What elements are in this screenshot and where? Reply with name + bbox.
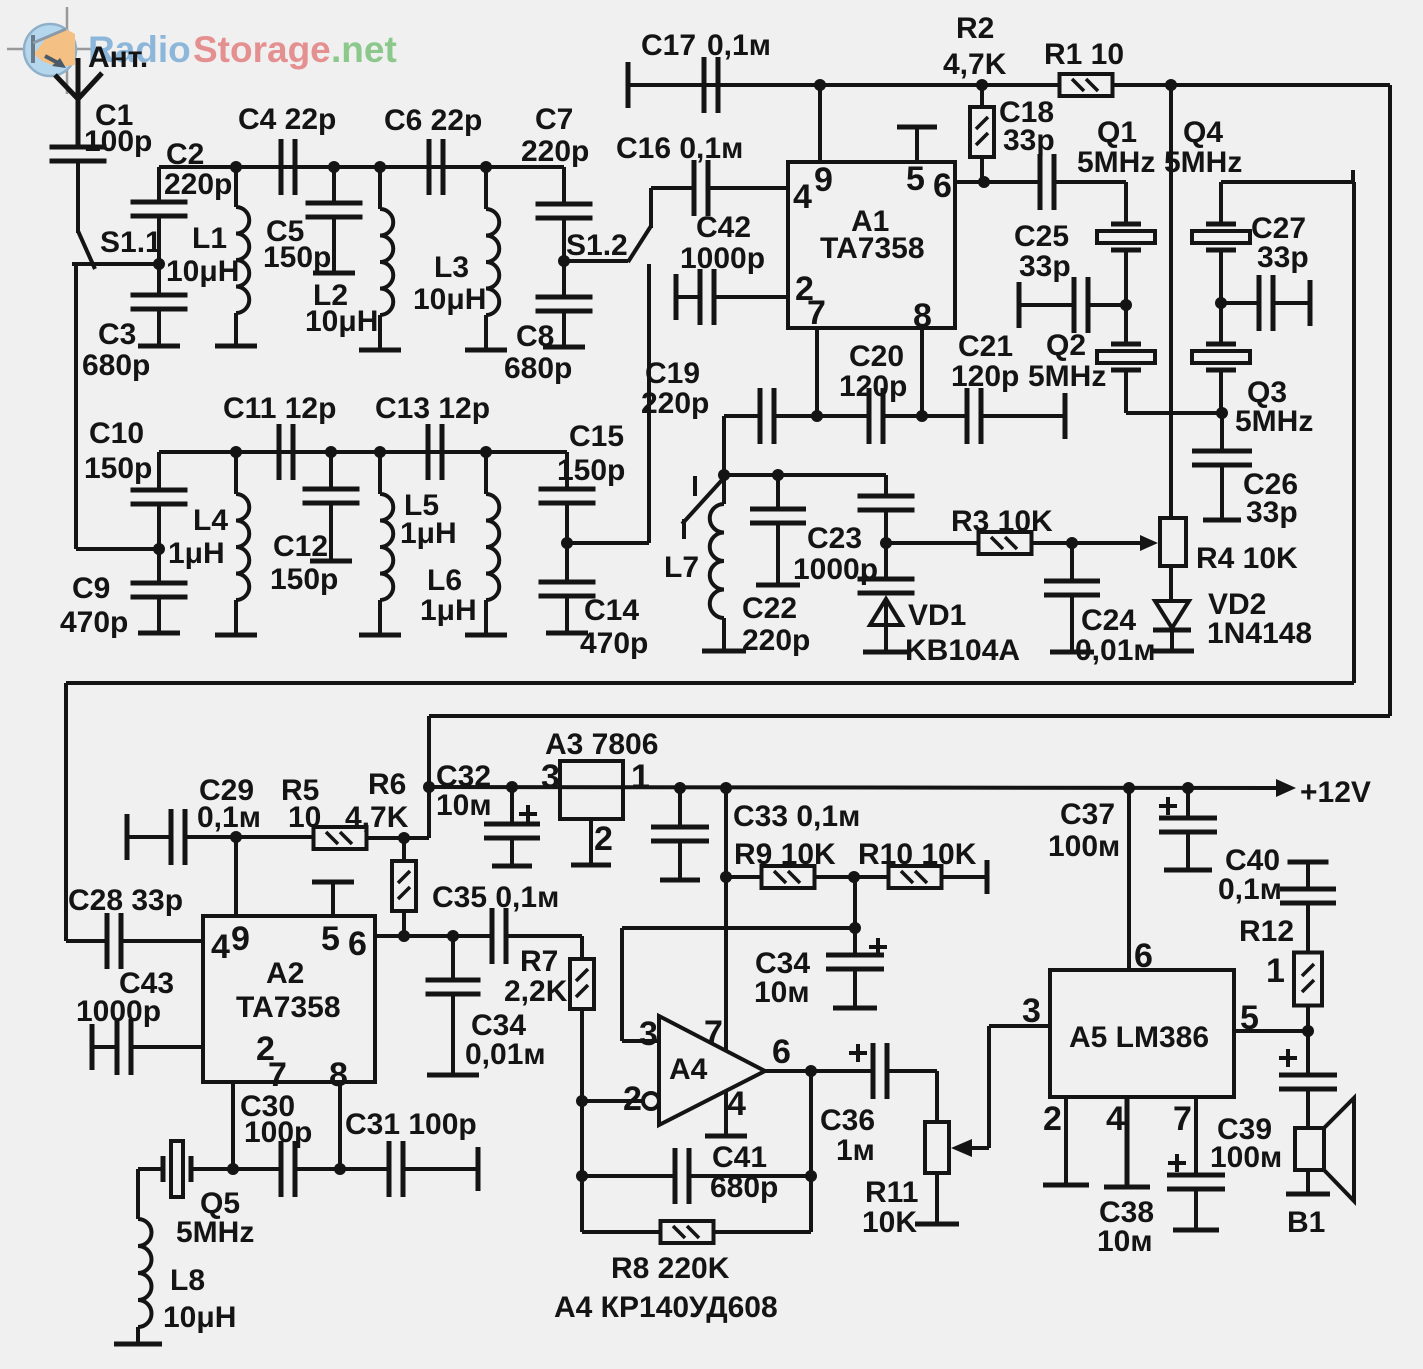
capacitor C17 bbox=[702, 57, 707, 113]
svg-text:4: 4 bbox=[211, 928, 230, 966]
svg-text:C16 0,1м: C16 0,1м bbox=[616, 132, 743, 165]
capacitor C4 bbox=[279, 139, 284, 195]
node Q5 junction bbox=[227, 1163, 239, 1175]
capacitor C39 bbox=[1306, 1031, 1310, 1075]
svg-text:1м: 1м bbox=[836, 1134, 875, 1167]
node A1 pin9 tap bbox=[814, 79, 826, 91]
node pin6 supply tap bbox=[1123, 782, 1135, 794]
capacitor C23 bbox=[884, 475, 888, 496]
wire right-edge supply drop bbox=[1388, 85, 1392, 716]
node C41 left junction bbox=[576, 1170, 588, 1182]
svg-text:33p: 33p bbox=[1019, 250, 1071, 283]
svg-text:5MHz: 5MHz bbox=[1077, 146, 1155, 179]
inductor L8 bbox=[136, 1169, 140, 1219]
svg-text:Storage: Storage bbox=[193, 29, 331, 70]
crystal Q5 bbox=[138, 1167, 163, 1171]
svg-text:5MHz: 5MHz bbox=[1028, 360, 1106, 393]
op-amp IC A2 TA7358 bbox=[203, 916, 375, 1082]
svg-text:7: 7 bbox=[1173, 1100, 1192, 1138]
svg-text:C28 33p: C28 33p bbox=[68, 884, 183, 917]
capacitor C40 bbox=[1288, 860, 1329, 865]
capacitor C20 bbox=[817, 414, 869, 418]
node supply junction A3 input bbox=[423, 781, 435, 793]
pin 4 ground A4 bbox=[724, 1091, 728, 1134]
svg-text:150p: 150p bbox=[557, 454, 625, 487]
pin 2 input A4 bbox=[582, 1099, 643, 1103]
wire A1 pin6 to C18 bbox=[955, 180, 1040, 184]
node C23-VD1 junction bbox=[880, 537, 892, 549]
node C15 junction bbox=[561, 537, 573, 549]
svg-text:2: 2 bbox=[623, 1080, 642, 1118]
svg-text:C35 0,1м: C35 0,1м bbox=[432, 881, 559, 914]
wire oscillator to bottom bus bbox=[1352, 182, 1356, 683]
resistor R3 bbox=[886, 541, 1144, 545]
svg-text:4: 4 bbox=[1106, 1100, 1125, 1138]
wire A2 pin7 lead bbox=[231, 1082, 235, 1169]
svg-text:9: 9 bbox=[814, 161, 833, 199]
svg-text:1μH: 1μH bbox=[400, 517, 457, 550]
capacitor C26 bbox=[1220, 413, 1224, 451]
wire A2 pin8 lead bbox=[338, 1082, 342, 1169]
capacitor C27 bbox=[1221, 301, 1259, 305]
svg-text:C12: C12 bbox=[273, 530, 328, 563]
svg-text:C3: C3 bbox=[98, 318, 136, 351]
speaker B1 bbox=[1295, 1128, 1324, 1170]
wiper arrow into R4 bbox=[1140, 535, 1158, 551]
svg-text:A5 LM386: A5 LM386 bbox=[1069, 1021, 1209, 1054]
svg-text:1: 1 bbox=[631, 758, 650, 796]
wire bias node down bbox=[853, 877, 857, 928]
svg-text:C13 12p: C13 12p bbox=[375, 392, 490, 425]
node R9 tap bbox=[720, 871, 732, 883]
svg-text:R11: R11 bbox=[865, 1176, 918, 1209]
capacitor C31 bbox=[340, 1167, 389, 1171]
diode VD2 1N4148 bbox=[1169, 566, 1173, 601]
capacitor C42 bbox=[674, 274, 679, 320]
inductor L7 variable bbox=[722, 475, 726, 504]
pin 5 output A5 bbox=[1234, 1029, 1308, 1033]
svg-text:150p: 150p bbox=[263, 241, 331, 274]
wire C16 to A1 pin4 bbox=[708, 186, 788, 190]
svg-text:3: 3 bbox=[639, 1015, 658, 1053]
svg-text:680p: 680p bbox=[710, 1171, 778, 1204]
resistor R6 bbox=[402, 838, 406, 862]
svg-text:C17: C17 bbox=[641, 29, 696, 62]
wire A1 pin7 lead bbox=[815, 328, 819, 416]
svg-text:120p: 120p bbox=[951, 360, 1019, 393]
svg-text:10м: 10м bbox=[436, 789, 492, 822]
capacitor C38 bbox=[1167, 1173, 1225, 1178]
svg-text:C19: C19 bbox=[645, 357, 700, 390]
svg-text:Q2: Q2 bbox=[1046, 329, 1086, 362]
capacitor C35 bbox=[490, 908, 495, 964]
svg-text:C6 22p: C6 22p bbox=[384, 104, 482, 137]
resistor R5 bbox=[314, 827, 367, 849]
svg-text:B1: B1 bbox=[1287, 1206, 1325, 1239]
node bias junction bbox=[849, 922, 861, 934]
svg-text:7: 7 bbox=[807, 294, 826, 332]
wiper arrow R11 bbox=[962, 1146, 989, 1150]
svg-text:2,2K: 2,2K bbox=[504, 975, 568, 1008]
capacitor C19 bbox=[724, 414, 760, 418]
svg-text:10μH: 10μH bbox=[305, 305, 378, 338]
variable arrow L7 bbox=[682, 480, 722, 524]
node S1.2 pole bbox=[558, 255, 570, 267]
svg-text:6: 6 bbox=[348, 925, 367, 963]
capacitor C36 bbox=[849, 1051, 867, 1055]
svg-text:470p: 470p bbox=[60, 606, 128, 639]
svg-text:100м: 100м bbox=[1048, 830, 1120, 863]
capacitor C32 bbox=[506, 781, 518, 793]
inductor L6 bbox=[480, 446, 492, 458]
svg-text:+12V: +12V bbox=[1300, 776, 1371, 809]
wire tank top bbox=[724, 473, 886, 477]
capacitor C28 bbox=[66, 939, 107, 943]
capacitor C16 bbox=[692, 160, 697, 216]
svg-text:3: 3 bbox=[1022, 992, 1041, 1030]
node R9-R10 junction bbox=[848, 871, 860, 883]
svg-text:C8: C8 bbox=[516, 320, 554, 353]
svg-text:120p: 120p bbox=[839, 370, 907, 403]
node row2 left junction bbox=[153, 543, 165, 555]
antenna Ant bbox=[76, 58, 81, 147]
node C24 junction bbox=[1066, 537, 1078, 549]
svg-text:C15: C15 bbox=[569, 420, 624, 453]
inductor L1 bbox=[230, 161, 242, 173]
svg-text:2: 2 bbox=[594, 820, 613, 858]
svg-text:5: 5 bbox=[1240, 999, 1259, 1037]
node A4 supply tap bbox=[720, 782, 732, 794]
svg-text:100м: 100м bbox=[1210, 1141, 1282, 1174]
switch S1.2 bbox=[564, 259, 628, 263]
svg-text:6: 6 bbox=[772, 1033, 791, 1071]
svg-text:10μH: 10μH bbox=[413, 283, 486, 316]
voltage regulator A3 7806 bbox=[560, 761, 623, 819]
inductor L4 bbox=[230, 446, 242, 458]
svg-text:TA7358: TA7358 bbox=[236, 991, 341, 1024]
svg-text:10μH: 10μH bbox=[166, 255, 239, 288]
node Q3 bottom junction bbox=[1216, 407, 1228, 419]
svg-text:9: 9 bbox=[231, 920, 250, 958]
svg-text:C7: C7 bbox=[535, 103, 573, 136]
svg-text:TA7358: TA7358 bbox=[820, 232, 925, 265]
op-amp A4 bbox=[659, 1016, 765, 1125]
svg-text:R8 220K: R8 220K bbox=[611, 1252, 730, 1285]
svg-text:3: 3 bbox=[541, 758, 560, 796]
svg-text:6: 6 bbox=[933, 167, 952, 205]
svg-text:680p: 680p bbox=[82, 349, 150, 382]
node A2 pin9 tap bbox=[230, 831, 242, 843]
svg-text:S1.1: S1.1 bbox=[100, 226, 162, 259]
capacitor C30 bbox=[233, 1167, 281, 1171]
wire top supply bus bbox=[626, 62, 631, 108]
node pin7 junction bbox=[811, 410, 823, 422]
node R1 right junction bbox=[1165, 79, 1177, 91]
svg-text:150p: 150p bbox=[270, 563, 338, 596]
wire C19 to tank bbox=[722, 416, 726, 475]
capacitor C22 bbox=[776, 475, 780, 509]
potentiometer R11 bbox=[935, 1071, 939, 1122]
svg-text:1μH: 1μH bbox=[420, 594, 477, 627]
svg-text:C42: C42 bbox=[696, 211, 751, 244]
svg-text:0,01м: 0,01м bbox=[465, 1038, 546, 1071]
svg-text:220p: 220p bbox=[521, 135, 589, 168]
pin 4 ground A5 bbox=[1125, 1097, 1130, 1187]
svg-text:A2: A2 bbox=[266, 957, 304, 990]
capacitor C15 bbox=[565, 452, 569, 489]
op-amp IC A1 TA7358 bbox=[788, 162, 955, 328]
capacitor C9 bbox=[131, 581, 188, 586]
svg-text:A4: A4 bbox=[669, 1053, 708, 1086]
node A4 output junction bbox=[805, 1065, 817, 1077]
capacitor C18 bbox=[1038, 154, 1043, 210]
capacitor C6 bbox=[427, 139, 432, 195]
svg-text:33p: 33p bbox=[1003, 124, 1055, 157]
inductor L2 bbox=[374, 161, 386, 173]
svg-text:10м: 10м bbox=[1097, 1225, 1153, 1258]
resistor R12 bbox=[1294, 953, 1322, 1006]
svg-text:C9: C9 bbox=[72, 572, 110, 605]
svg-text:C4 22p: C4 22p bbox=[238, 103, 336, 136]
svg-text:C11 12p: C11 12p bbox=[223, 392, 336, 425]
capacitor C14 bbox=[539, 580, 596, 585]
audio amplifier A5 LM386 bbox=[1050, 970, 1234, 1097]
svg-text:4,7K: 4,7K bbox=[943, 48, 1007, 81]
svg-text:Ант.: Ант. bbox=[88, 41, 148, 74]
svg-text:1000p: 1000p bbox=[76, 995, 161, 1028]
svg-text:R4 10K: R4 10K bbox=[1196, 542, 1298, 575]
svg-text:Q4: Q4 bbox=[1183, 116, 1223, 149]
svg-text:C20: C20 bbox=[849, 340, 904, 373]
wire left vertical S1.1 to row2 feed bbox=[74, 266, 78, 549]
svg-text:VD1: VD1 bbox=[908, 599, 966, 632]
wire C18 to Q1 bbox=[1054, 180, 1126, 184]
svg-text:R9 10K: R9 10K bbox=[734, 838, 836, 871]
pin 7 bypass A5 bbox=[1194, 1097, 1198, 1175]
capacitor C41 bbox=[582, 1174, 675, 1178]
wire A1 pin8 lead bbox=[920, 328, 924, 416]
svg-text:1: 1 bbox=[1266, 952, 1285, 990]
svg-text:L3: L3 bbox=[434, 251, 469, 284]
svg-text:C37: C37 bbox=[1060, 798, 1115, 831]
capacitor C34 10u bbox=[853, 928, 857, 955]
svg-text:33p: 33p bbox=[1257, 241, 1309, 274]
wire A4 pin3 bias line bbox=[622, 926, 855, 930]
svg-text:C21: C21 bbox=[958, 330, 1013, 363]
capacitor C13 bbox=[426, 424, 431, 480]
capacitor C21 bbox=[922, 414, 967, 418]
svg-text:100p: 100p bbox=[84, 125, 152, 158]
svg-text:R7: R7 bbox=[520, 945, 558, 978]
svg-text:7: 7 bbox=[268, 1056, 287, 1094]
svg-text:C41: C41 bbox=[712, 1141, 767, 1174]
svg-text:C36: C36 bbox=[820, 1104, 875, 1137]
varicap diode VD1 KB104A bbox=[884, 543, 888, 579]
svg-text:10м: 10м bbox=[754, 976, 810, 1009]
capacitor C3 bbox=[131, 293, 188, 298]
svg-text:L6: L6 bbox=[427, 564, 462, 597]
wire Q4 top feed bbox=[1221, 180, 1353, 184]
svg-text:KB104A: KB104A bbox=[905, 634, 1020, 667]
svg-text:220p: 220p bbox=[164, 168, 232, 201]
crystal Q3 bbox=[1219, 303, 1223, 344]
svg-text:.net: .net bbox=[331, 29, 397, 70]
capacitor C37 bbox=[1182, 782, 1194, 794]
node tank top left bbox=[718, 469, 730, 481]
svg-text:1N4148: 1N4148 bbox=[1207, 617, 1312, 650]
capacitor C24 bbox=[1070, 543, 1074, 581]
svg-text:R10 10K: R10 10K bbox=[858, 838, 977, 871]
svg-text:33p: 33p bbox=[1246, 496, 1298, 529]
svg-text:0,01м: 0,01м bbox=[1075, 634, 1156, 667]
resistor R7 bbox=[580, 936, 584, 959]
svg-text:5MHz: 5MHz bbox=[176, 1216, 254, 1249]
svg-text:R6: R6 bbox=[368, 768, 406, 801]
pin 6 output A4 bbox=[765, 1069, 873, 1073]
svg-text:220p: 220p bbox=[641, 387, 709, 420]
capacitor C29 bbox=[125, 814, 130, 860]
crystal Q2 bbox=[1124, 305, 1128, 344]
resistor R8 bbox=[582, 1230, 811, 1234]
svg-text:C25: C25 bbox=[1014, 220, 1069, 253]
svg-text:1000p: 1000p bbox=[680, 242, 765, 275]
wire S1.2 to C16 bbox=[649, 188, 653, 228]
node C22 tap bbox=[772, 469, 784, 481]
wire supply rail y788 bbox=[429, 787, 1281, 788]
crystal Q1 bbox=[1124, 182, 1128, 224]
svg-text:680p: 680p bbox=[504, 352, 572, 385]
svg-text:150p: 150p bbox=[84, 452, 152, 485]
node output junction bbox=[1302, 1025, 1314, 1037]
svg-text:2: 2 bbox=[1043, 1100, 1062, 1138]
arrow +12V bbox=[1276, 779, 1296, 797]
svg-text:S1.2: S1.2 bbox=[566, 229, 628, 262]
wire feedback vertical bbox=[580, 1101, 584, 1232]
crystal Q4 bbox=[1219, 182, 1223, 224]
capacitor C10 bbox=[131, 488, 188, 493]
svg-text:R12: R12 bbox=[1239, 915, 1294, 948]
node C41 right junction bbox=[805, 1170, 817, 1182]
svg-text:C22: C22 bbox=[742, 592, 797, 625]
capacitor C7 bbox=[562, 167, 566, 204]
svg-text:R2: R2 bbox=[956, 12, 994, 45]
node R6 tap bbox=[398, 832, 410, 844]
potentiometer R4 bbox=[1169, 85, 1173, 518]
node R6 bottom junction bbox=[398, 930, 410, 942]
capacitor C34 0.01 bbox=[451, 936, 455, 980]
node S1.1 junction bbox=[153, 258, 165, 270]
svg-text:4: 4 bbox=[727, 1085, 746, 1123]
svg-text:10K: 10K bbox=[862, 1206, 917, 1239]
switch S1.1 bbox=[78, 231, 95, 269]
svg-text:0,1м: 0,1м bbox=[197, 801, 261, 834]
svg-text:L8: L8 bbox=[170, 1264, 205, 1297]
node C34 tap bbox=[447, 930, 459, 942]
capacitor C5 bbox=[328, 161, 340, 173]
svg-text:C2: C2 bbox=[166, 138, 204, 171]
wire R11 wiper to A5 pin3 bbox=[987, 1026, 991, 1148]
svg-text:5: 5 bbox=[321, 920, 340, 958]
inductor L5 bbox=[374, 446, 386, 458]
svg-text:C33 0,1м: C33 0,1м bbox=[733, 800, 860, 833]
capacitor C2 bbox=[131, 200, 188, 205]
svg-text:C24: C24 bbox=[1081, 604, 1136, 637]
capacitor C8 bbox=[562, 261, 566, 297]
inductor L3 bbox=[480, 161, 492, 173]
wire row1 bus bbox=[159, 165, 564, 169]
resistor R10 bbox=[889, 866, 942, 888]
svg-text:6: 6 bbox=[1134, 937, 1153, 975]
svg-text:0,1м: 0,1м bbox=[707, 29, 771, 62]
wire Q2 to Q3 node bbox=[1126, 411, 1222, 415]
svg-text:Q1: Q1 bbox=[1097, 116, 1137, 149]
svg-text:0,1м: 0,1м bbox=[1218, 873, 1282, 906]
antenna tap symbol above A1 pin5 bbox=[897, 125, 937, 130]
svg-text:C31 100p: C31 100p bbox=[345, 1108, 477, 1141]
capacitor C25 bbox=[1017, 282, 1022, 328]
svg-text:A4 КР140УД608: A4 КР140УД608 bbox=[554, 1291, 778, 1324]
svg-text:C14: C14 bbox=[584, 594, 639, 627]
node pin8 junction bbox=[334, 1163, 346, 1175]
node Q1-Q2 junction bbox=[1120, 299, 1132, 311]
wire C39 to speaker bbox=[1306, 1089, 1310, 1192]
capacitor C33 bbox=[674, 782, 686, 794]
svg-text:5MHz: 5MHz bbox=[1235, 405, 1313, 438]
pin 3 input A4 bbox=[620, 928, 624, 1041]
wire antenna to S1.1 bbox=[76, 161, 80, 233]
resistor R2 bbox=[976, 79, 988, 91]
resistor R9 bbox=[726, 875, 762, 879]
svg-text:A3 7806: A3 7806 bbox=[545, 728, 658, 761]
wire S1.2 to row2 output bbox=[647, 264, 651, 543]
svg-text:L7: L7 bbox=[664, 551, 699, 584]
svg-text:5: 5 bbox=[906, 160, 925, 198]
wire A1 pin9 bbox=[818, 85, 822, 162]
wire A2 pin6 line bbox=[375, 934, 492, 938]
svg-text:10μH: 10μH bbox=[163, 1301, 236, 1334]
svg-text:1μH: 1μH bbox=[168, 537, 225, 570]
resistor R1 bbox=[1060, 74, 1113, 96]
node Q4-Q3 junction bbox=[1215, 297, 1227, 309]
svg-text:L4: L4 bbox=[193, 504, 228, 537]
svg-text:C10: C10 bbox=[89, 417, 144, 450]
svg-text:5MHz: 5MHz bbox=[1164, 146, 1242, 179]
node A4 inverting junction bbox=[576, 1095, 588, 1107]
node pin8 junction bbox=[916, 410, 928, 422]
pin 2 ground A5 bbox=[1064, 1097, 1068, 1183]
pin 6 supply A5 bbox=[1127, 788, 1131, 970]
capacitor C43 bbox=[90, 1024, 95, 1070]
svg-text:L1: L1 bbox=[192, 222, 227, 255]
svg-text:4: 4 bbox=[793, 178, 812, 216]
svg-text:R1 10: R1 10 bbox=[1044, 38, 1124, 71]
svg-text:10: 10 bbox=[288, 801, 321, 834]
logo RadioStorage.net icon bbox=[7, 48, 95, 51]
wire A2 pin9 bbox=[234, 837, 238, 916]
wire row2 bus bbox=[159, 450, 567, 454]
svg-text:4,7K: 4,7K bbox=[345, 801, 409, 834]
svg-text:470p: 470p bbox=[580, 627, 648, 660]
svg-text:C23: C23 bbox=[807, 522, 862, 555]
capacitor C1 bbox=[50, 145, 107, 150]
wire A4 pin7 supply bbox=[724, 788, 728, 1051]
svg-text:220p: 220p bbox=[742, 624, 810, 657]
ground stem A3 pin2 bbox=[589, 819, 593, 865]
svg-text:7: 7 bbox=[704, 1014, 723, 1052]
svg-text:100p: 100p bbox=[244, 1116, 312, 1149]
antenna tap symbol above A2 pin5 bbox=[312, 880, 354, 885]
wire R5 line up to supply bbox=[427, 787, 431, 838]
